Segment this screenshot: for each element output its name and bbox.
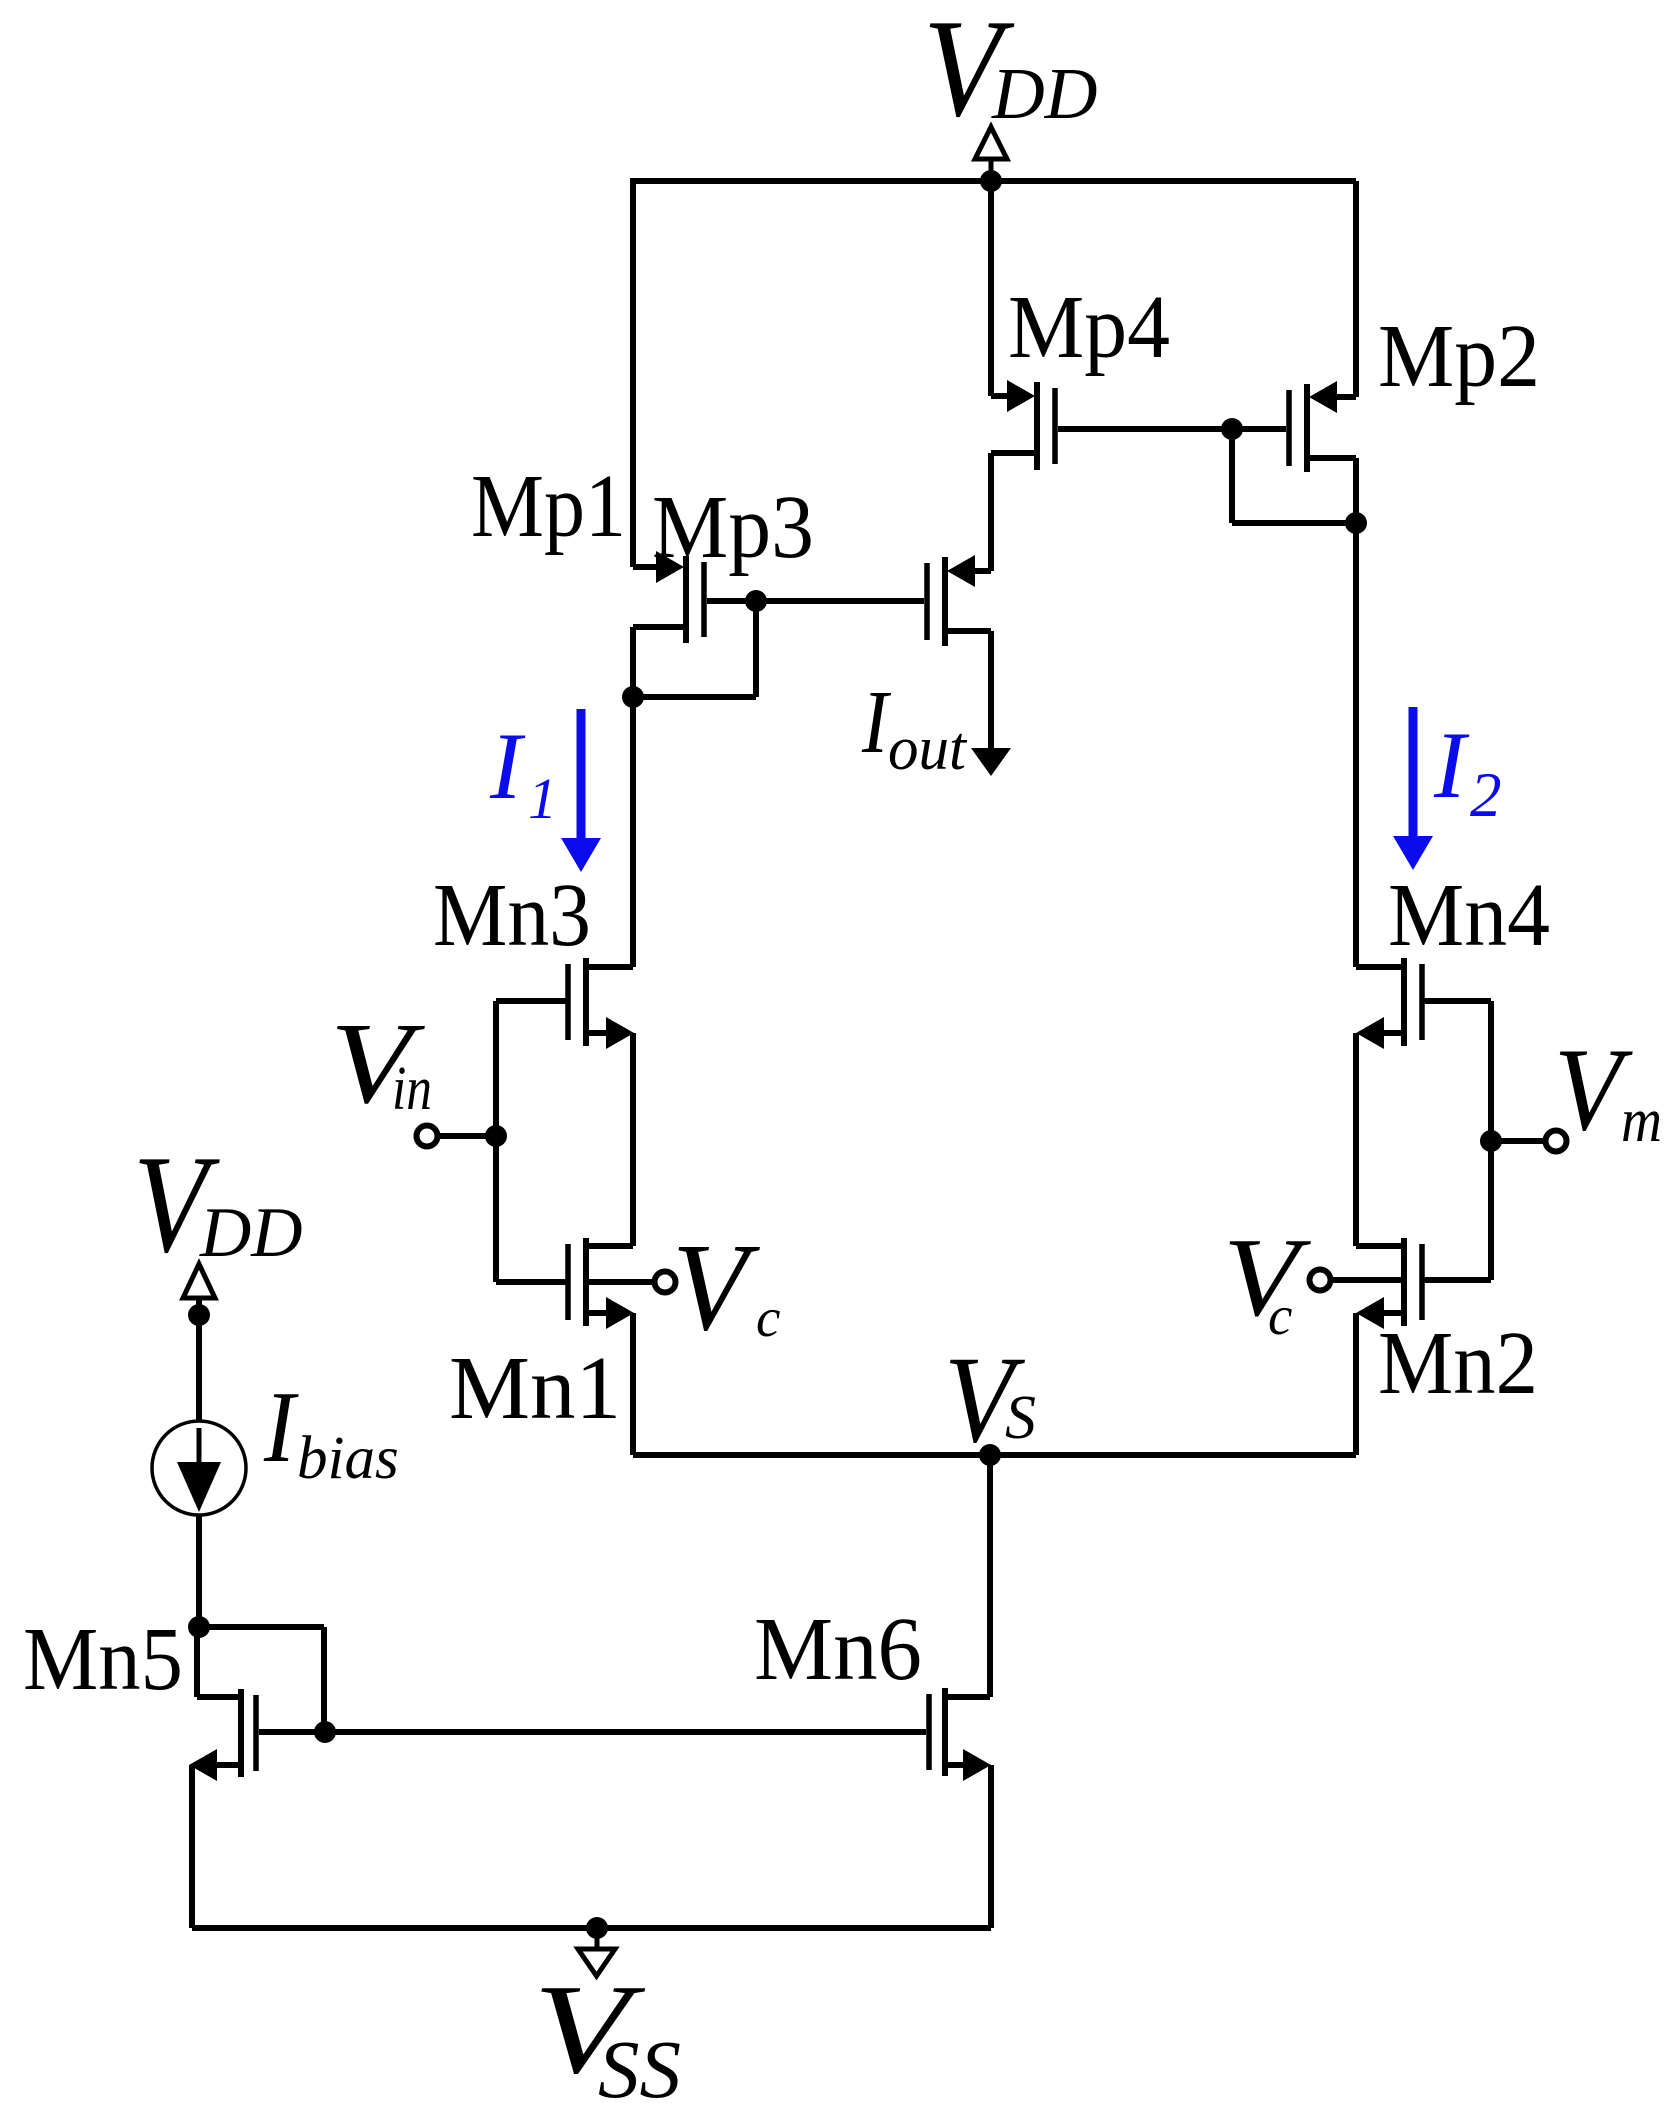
svg-text:Mn2: Mn2 [1378, 1314, 1538, 1413]
svg-text:DD: DD [199, 1194, 303, 1272]
svg-text:1: 1 [528, 766, 557, 831]
svg-text:I: I [263, 1371, 299, 1484]
svg-text:Mp4: Mp4 [1008, 278, 1170, 377]
svg-text:I: I [861, 673, 891, 772]
svg-text:out: out [888, 715, 968, 783]
svg-text:S: S [1005, 1384, 1036, 1452]
svg-text:c: c [1268, 1285, 1292, 1346]
svg-text:SS: SS [598, 2023, 681, 2115]
svg-text:2: 2 [1470, 760, 1502, 830]
svg-text:Mn5: Mn5 [23, 1610, 183, 1709]
svg-text:Mn4: Mn4 [1388, 866, 1550, 965]
svg-text:Mp3: Mp3 [652, 478, 814, 577]
svg-text:Mn6: Mn6 [754, 1600, 922, 1699]
svg-text:in: in [392, 1055, 432, 1123]
svg-text:Mn1: Mn1 [449, 1339, 621, 1438]
svg-text:Mp1: Mp1 [471, 457, 626, 556]
svg-text:bias: bias [297, 1425, 399, 1492]
svg-text:I: I [489, 713, 526, 819]
svg-text:c: c [756, 1287, 780, 1348]
svg-text:I: I [1433, 712, 1470, 818]
svg-text:DD: DD [991, 53, 1097, 134]
svg-text:m: m [1621, 1087, 1662, 1155]
svg-text:Mp2: Mp2 [1378, 307, 1540, 406]
svg-text:V: V [672, 1219, 761, 1357]
svg-text:Mn3: Mn3 [433, 866, 591, 965]
